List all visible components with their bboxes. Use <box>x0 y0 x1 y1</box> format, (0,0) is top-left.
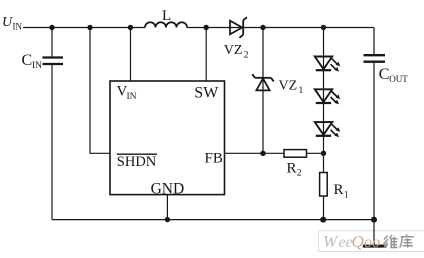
label C_IN <box>22 52 43 71</box>
node: LED string bottom / R1 top junction <box>321 151 326 156</box>
wire VZ1 branch vertical (top rail to FB row) <box>262 28 264 154</box>
wire C_IN upper stub <box>51 28 53 58</box>
svg-text:OUT: OUT <box>389 74 408 84</box>
label U_IN input voltage <box>2 15 22 32</box>
svg-text:2: 2 <box>297 169 302 179</box>
wire SHDN branch (top rail down and right into SHDN pin) <box>90 28 110 154</box>
svg-text:FB: FB <box>205 150 223 166</box>
label VZ2 <box>224 43 249 61</box>
svg-text:IN: IN <box>32 61 42 71</box>
wire R1 upper stub <box>323 153 325 172</box>
op-amp/regulator IC U1 box <box>110 81 225 195</box>
ground <box>363 220 387 248</box>
svg-text:C: C <box>379 66 390 83</box>
zener diode VZ1 <box>252 74 273 90</box>
node: LED string top <box>321 25 326 30</box>
node: SW / inductor tap <box>204 25 209 30</box>
capacitor C_IN <box>43 58 64 65</box>
wire GND pin stub <box>166 195 168 220</box>
svg-text:W: W <box>323 232 339 251</box>
wire C_OUT branch upper (corner down to top plate) <box>373 28 375 56</box>
node: GND pin / bottom rail junction <box>165 217 170 222</box>
node: C_OUT / bottom rail junction <box>371 217 377 223</box>
label R2 <box>287 160 302 178</box>
resistor R1 <box>320 173 328 197</box>
diode VZ2 (catch diode) <box>230 17 247 38</box>
label C_OUT <box>379 66 409 84</box>
wire top rail right (inductor to C_OUT corner) <box>187 27 374 29</box>
capacitor C_OUT <box>364 55 386 62</box>
svg-text:L: L <box>162 8 171 24</box>
svg-text:2: 2 <box>244 51 249 61</box>
wire SW pin stub <box>205 28 207 82</box>
svg-text:R: R <box>334 182 344 198</box>
svg-text:1: 1 <box>299 86 304 96</box>
resistor R2 <box>284 150 307 158</box>
svg-text:VZ: VZ <box>224 43 243 58</box>
inductor L <box>145 22 187 27</box>
wire bottom rail <box>52 219 374 221</box>
node: C_IN tap <box>49 25 54 30</box>
wire R1 lower stub to bottom rail <box>323 196 325 220</box>
watermark text 维库 (hand drawn strokes) <box>384 234 414 247</box>
svg-text:oo: oo <box>364 234 380 251</box>
node: SHDN tap <box>87 25 92 30</box>
pin label V_IN <box>117 84 137 103</box>
wire C_IN lower stub to bottom rail <box>51 64 53 220</box>
svg-text:SW: SW <box>194 85 219 102</box>
svg-text:R: R <box>287 160 297 176</box>
watermark box <box>319 231 424 252</box>
node: VZ1 tap <box>260 25 265 30</box>
LED D2 <box>315 89 340 104</box>
watermark text WeeQoo <box>323 232 380 251</box>
label VZ1 <box>279 79 304 97</box>
svg-text:IN: IN <box>13 22 23 32</box>
svg-text:U: U <box>2 15 13 30</box>
svg-text:Q: Q <box>352 232 364 251</box>
wire FB row (IC to R2) <box>225 152 284 154</box>
wire R2 to LED string junction <box>307 152 324 154</box>
svg-text:1: 1 <box>344 191 349 201</box>
svg-text:SHDN: SHDN <box>117 154 157 170</box>
node: V_IN / inductor tap <box>128 25 133 30</box>
LED D1 <box>315 57 340 72</box>
wire LED string vertical (top rail to FB row junction) <box>323 28 325 154</box>
wire C_OUT branch lower (bottom plate to bottom rail) <box>373 62 375 220</box>
svg-text:C: C <box>22 52 33 69</box>
wire V_IN pin stub <box>130 28 132 82</box>
svg-text:IN: IN <box>127 92 137 102</box>
node: R1 / bottom rail junction <box>320 217 326 223</box>
label R1 <box>334 182 349 201</box>
wire top rail left (U_IN to inductor) <box>23 27 145 29</box>
LED D3 <box>315 122 340 137</box>
svg-text:VZ: VZ <box>279 79 298 94</box>
pin label SHDN (active low) <box>117 154 157 170</box>
node: VZ1 / FB junction <box>260 151 265 156</box>
